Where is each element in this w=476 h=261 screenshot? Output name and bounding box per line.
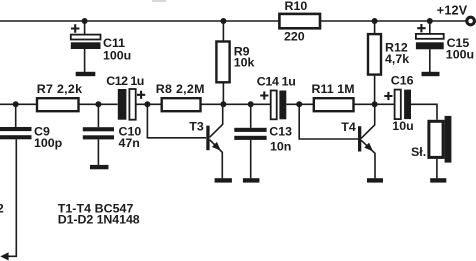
ground speaker: [430, 178, 446, 182]
wire C9 top stem: [15, 104, 17, 127]
wire C13 bottom stem: [250, 140, 252, 179]
node dot R12 on rail: [372, 18, 378, 24]
capacitor C12 electrolytic: [118, 89, 136, 120]
svg-text:4,7k: 4,7k: [385, 52, 409, 66]
wire C9 feedback down-left with corner: [8, 139, 16, 256]
wire C10 top stem: [97, 104, 99, 127]
wire C11 bottom stem: [84, 49, 86, 72]
node dot R12 bottom / T4 collector: [372, 101, 378, 107]
wire speaker bottom stem: [436, 159, 438, 179]
wire R11 to C16: [354, 103, 395, 105]
wire +12V rail right segment: [320, 20, 466, 22]
svg-text:D1-D2 1N4148: D1-D2 1N4148: [58, 212, 140, 226]
svg-text:R11 1M: R11 1M: [312, 82, 355, 96]
ground C11: [76, 72, 96, 76]
svg-text:R10: R10: [285, 0, 308, 13]
transistor T3 base bar: [206, 126, 209, 151]
node +12V terminal ring: [467, 17, 475, 25]
capacitor C14 electrolytic: [271, 91, 287, 120]
wire T3 emitter: [210, 140, 223, 179]
ground C10: [90, 165, 109, 169]
node dot C14 right / T4 base: [296, 101, 302, 107]
wire C12 to R8: [136, 103, 162, 105]
wire R9 top stem: [222, 21, 224, 42]
transistor T4 base bar: [358, 126, 361, 151]
svg-text:C14 1u: C14 1u: [257, 75, 296, 89]
resistor R11: [314, 98, 354, 111]
resistor R10: [279, 14, 320, 28]
svg-text:100u: 100u: [103, 48, 131, 62]
wire T4 collector: [361, 104, 375, 138]
ground T4: [367, 178, 383, 182]
resistor R9: [216, 42, 229, 83]
svg-text:10k: 10k: [234, 56, 255, 70]
svg-text:10n: 10n: [270, 139, 291, 153]
wire C11 top stem: [84, 21, 86, 35]
svg-text:T3: T3: [189, 119, 204, 133]
transistor T3 emitter arrowhead: [212, 142, 221, 151]
ground C15: [422, 72, 440, 76]
svg-text:+12V: +12V: [437, 3, 468, 17]
svg-text:Sł.: Sł.: [411, 145, 426, 159]
wire R12 bottom stem: [374, 75, 376, 105]
node dot C13 / C14 left: [248, 101, 254, 107]
svg-text:R7 2,2k: R7 2,2k: [37, 82, 82, 96]
capacitor C10 plates: [83, 127, 114, 139]
resistor R7: [37, 98, 79, 111]
svg-text:C12 1u: C12 1u: [106, 74, 144, 88]
capacitor C15 plus sign: [417, 24, 425, 32]
svg-text:C16: C16: [391, 74, 414, 88]
node dot R7 left / C9: [13, 101, 19, 107]
wire C16 to speaker: [411, 104, 437, 120]
speaker Sl body: [429, 121, 443, 157]
node dot C11 on rail: [82, 18, 88, 24]
node dot C12 right / T3 base: [144, 101, 150, 107]
wire R7 to C12: [79, 103, 118, 105]
wire C13 top stem: [250, 104, 252, 128]
svg-text:10u: 10u: [392, 119, 413, 133]
speaker Sl magnet bar: [445, 116, 452, 163]
node dot C15 on rail: [427, 18, 433, 24]
capacitor C9 plates: [0, 127, 32, 139]
transistor T4 emitter arrowhead: [364, 143, 373, 152]
wire R9 bottom stem: [222, 82, 224, 104]
svg-text:2: 2: [0, 202, 4, 216]
wire C15 bottom stem: [429, 49, 431, 72]
ground T3: [215, 178, 232, 182]
scan artifact top center: [152, 0, 166, 2]
wire R12 top stem: [374, 21, 376, 34]
capacitor C16 plus sign: [384, 92, 392, 100]
node dot R9 on rail: [220, 18, 226, 24]
wire C15 top stem: [429, 21, 431, 34]
wire R8 to C14: [201, 103, 271, 105]
wire T4 emitter: [361, 140, 375, 178]
svg-text:47n: 47n: [119, 136, 140, 150]
capacitor C11 plus sign: [71, 24, 79, 32]
wire T4 base L from C14 node: [299, 104, 358, 139]
ground C13: [243, 178, 260, 182]
resistor R8: [162, 98, 201, 111]
wire +12V rail left segment: [0, 20, 279, 22]
wire T3 collector: [210, 104, 223, 137]
svg-text:100p: 100p: [34, 136, 63, 150]
node dot R7 right / C10: [95, 101, 101, 107]
wire C14 to R11: [286, 103, 314, 105]
wire C10 bottom stem: [97, 139, 99, 165]
capacitor C15 electrolytic: [416, 34, 444, 49]
capacitor C14 plus sign: [260, 91, 268, 99]
wire signal line input to R7: [0, 103, 37, 105]
node dot R9 bottom / T3 collector: [220, 101, 226, 107]
capacitor C12 plus sign: [137, 91, 145, 99]
svg-text:100u: 100u: [446, 48, 474, 62]
capacitor C11 electrolytic: [71, 35, 101, 49]
capacitor C16 electrolytic: [395, 90, 411, 120]
capacitor C13 plates: [234, 128, 266, 140]
resistor R12: [368, 34, 381, 75]
svg-text:R8 2,2M: R8 2,2M: [156, 82, 205, 96]
wire T3 base L from C12 node: [147, 104, 206, 138]
svg-text:C13: C13: [269, 125, 292, 139]
svg-text:220: 220: [284, 30, 305, 44]
svg-text:T4: T4: [341, 120, 356, 134]
feedback arrow at bottom left: [0, 252, 8, 260]
